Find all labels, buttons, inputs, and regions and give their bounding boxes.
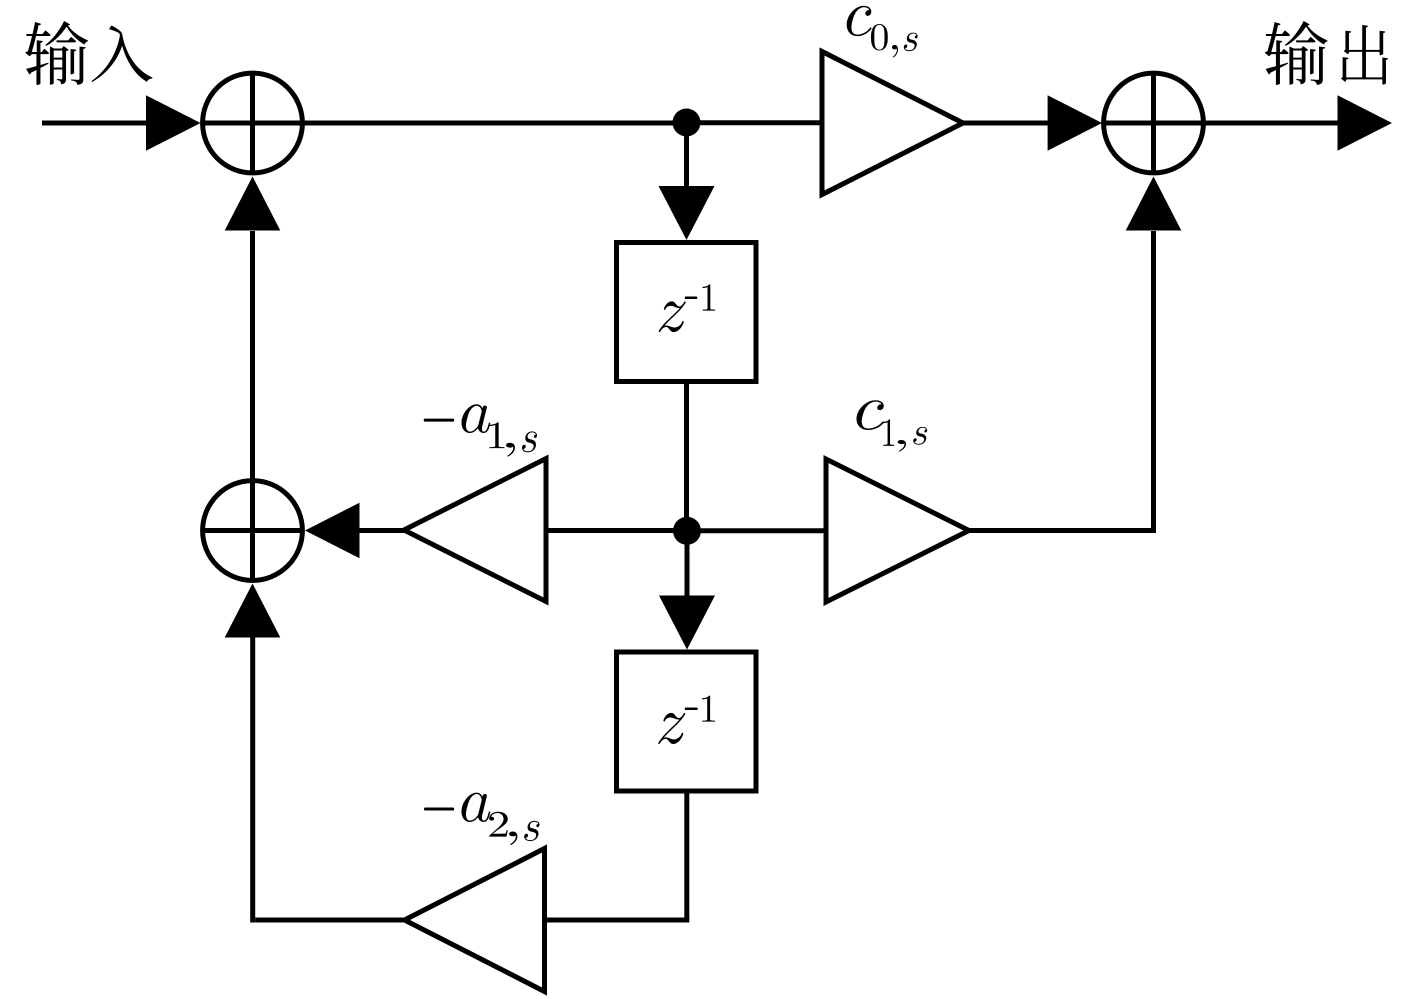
delay element U2 (z^-1 box) xyxy=(617,652,757,791)
arrowhead: feedback into adder A1 from below xyxy=(225,177,281,231)
wire: node N1 to gain triangle c0 xyxy=(686,120,824,125)
label z^-1 of delay element U2 xyxy=(658,696,715,744)
gain triangle -a2,s (amplifier pointing left) xyxy=(405,849,545,992)
wire: input lead into adder A1 xyxy=(42,121,160,126)
arrowhead: feedback into adder A3 from below xyxy=(225,584,281,638)
delay element U1 (z^-1 box) xyxy=(617,243,757,382)
label: output 输出 xyxy=(1265,21,1388,85)
arrowhead: into delay U2 xyxy=(659,596,715,650)
wire: bottom row, delay U2 corner to gain -a2 xyxy=(542,918,689,923)
arrowhead: branch c1 into adder A2 from below xyxy=(1126,177,1182,231)
wire: riser up into adder A2 xyxy=(1151,231,1156,533)
adder A2 (output summing node, circle with plus) xyxy=(1104,73,1204,173)
gain triangle c0,s (amplifier pointing right) xyxy=(822,52,963,195)
arrowhead: into delay U1 xyxy=(659,186,715,240)
gain triangle -a1,s (amplifier pointing left) xyxy=(404,459,546,602)
wire: node N1 down toward delay U1 xyxy=(684,122,689,188)
wire: adder A2 to output lead xyxy=(1203,121,1340,126)
label: input 输入 xyxy=(25,21,152,85)
value label -a1,s (first feedback gain) xyxy=(424,404,537,456)
adder A3 (feedback summing node, circle with plus) xyxy=(203,481,303,581)
wire: gain c1 to riser corner xyxy=(969,528,1156,533)
wire: adder A1 to node N1 xyxy=(302,121,688,126)
adder A1 (input summing node, circle with plus) xyxy=(203,73,303,173)
arrowhead: branch -a1 into adder A3 xyxy=(305,503,360,559)
arrowhead: input into adder A1 xyxy=(146,95,201,151)
value label c1,s (gain of middle branch) xyxy=(856,400,927,451)
wire: node N2 down toward delay U2 xyxy=(685,530,690,597)
gain triangle c1,s (amplifier pointing right) xyxy=(826,459,969,602)
arrowhead: branch c0 into adder A2 xyxy=(1048,95,1102,151)
node N1 (junction dot on top row) xyxy=(673,109,701,137)
value label -a2,s (second feedback gain) xyxy=(424,793,540,845)
wire: delay U1 to node N2 xyxy=(684,381,689,532)
value label c0,s (gain of top branch) xyxy=(847,6,918,58)
arrowhead: output xyxy=(1338,95,1393,151)
node N2 (junction dot on middle row) xyxy=(673,517,701,545)
wire: gain -a2 to bottom-left corner xyxy=(255,918,406,923)
wire: gain c0 to adder A2 xyxy=(963,121,1050,126)
wire: gain -a1 to adder A3 xyxy=(358,528,406,533)
wire: bottom-left corner up to adder A3 xyxy=(250,636,255,923)
wire: node N2 to gain triangle c1 xyxy=(687,528,828,533)
wire: node N2 to gain triangle -a1 xyxy=(544,528,688,533)
wire: delay U2 down to bottom row xyxy=(684,790,689,920)
label z^-1 of delay element U1 xyxy=(659,284,715,332)
wire: adder A3 up to adder A1 xyxy=(250,231,255,482)
